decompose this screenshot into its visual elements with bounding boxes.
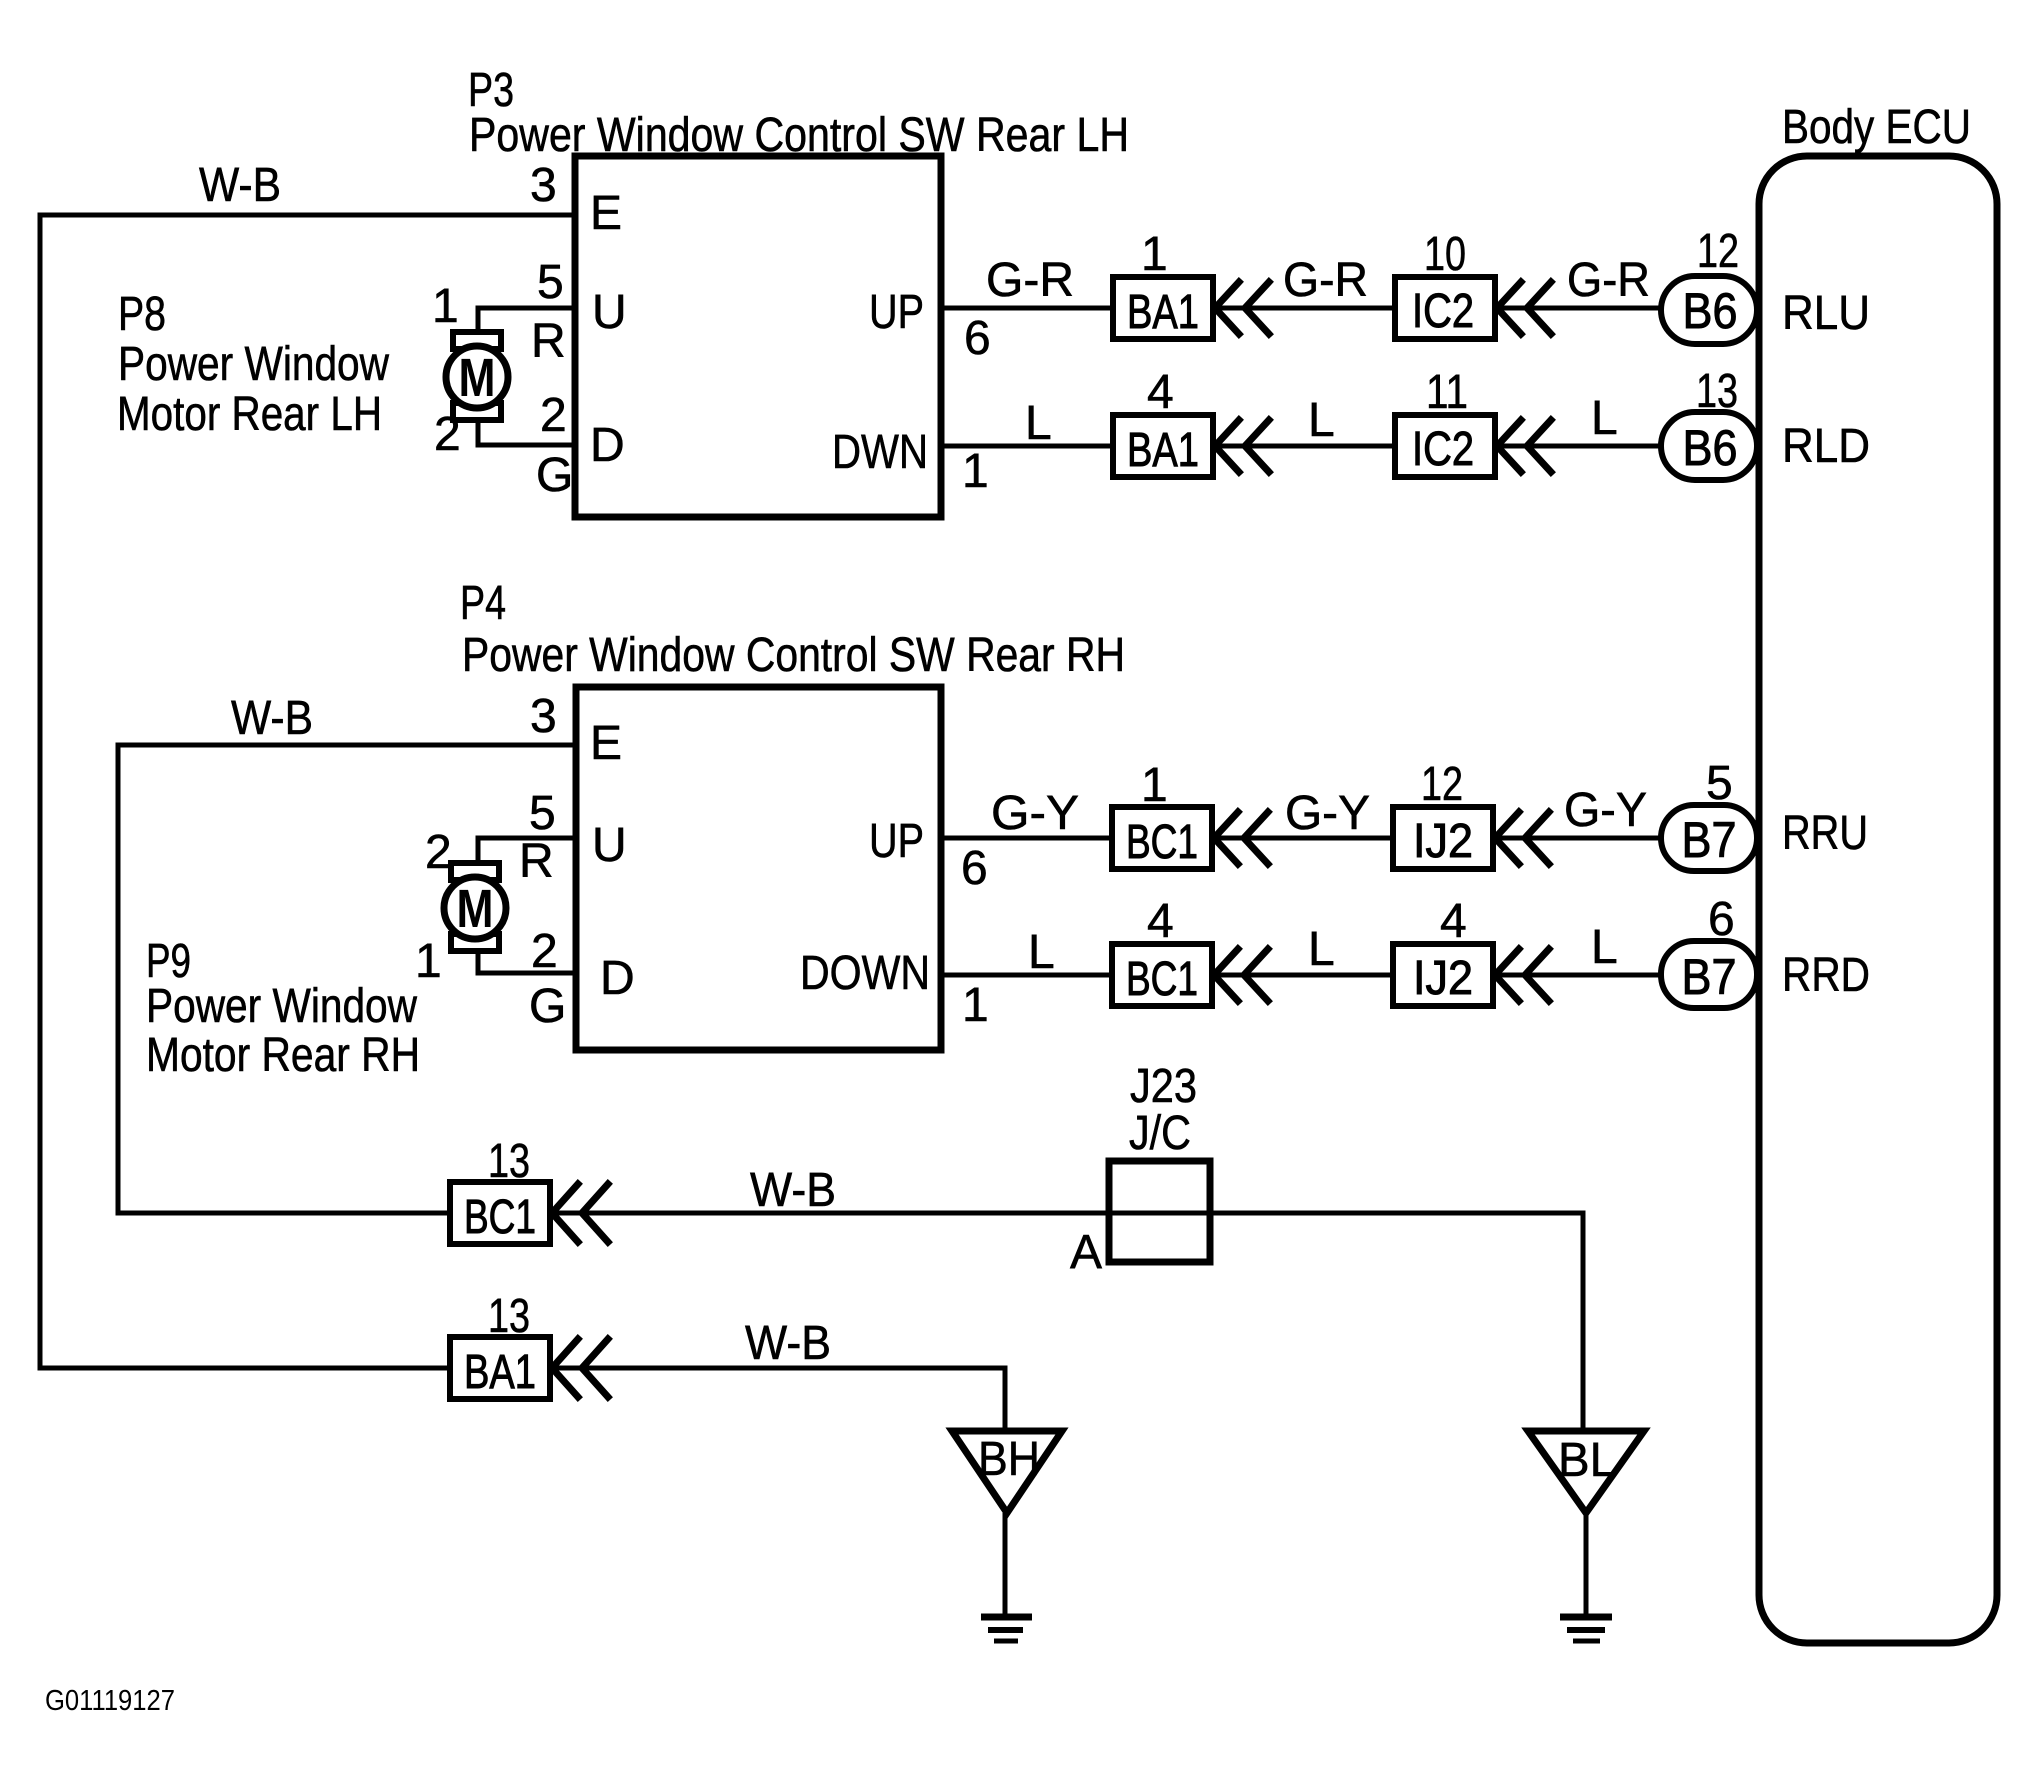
svg-text:G-Y: G-Y (991, 787, 1079, 840)
svg-text:UP: UP (869, 815, 924, 868)
svg-text:RRD: RRD (1782, 949, 1870, 1002)
svg-text:W-B: W-B (231, 692, 313, 745)
svg-text:IC2: IC2 (1412, 423, 1474, 476)
svg-text:4: 4 (1147, 895, 1174, 948)
svg-text:G01119127: G01119127 (45, 1685, 175, 1717)
svg-text:L: L (1591, 921, 1618, 974)
svg-text:M: M (457, 879, 494, 939)
svg-text:Power Window Control SW Rear R: Power Window Control SW Rear RH (462, 629, 1125, 682)
svg-text:DOWN: DOWN (800, 947, 930, 1000)
svg-text:P4: P4 (460, 577, 506, 630)
svg-text:1: 1 (432, 280, 459, 333)
svg-text:D: D (600, 952, 635, 1005)
svg-text:5: 5 (529, 787, 556, 840)
svg-text:BA1: BA1 (1127, 424, 1199, 477)
svg-text:5: 5 (537, 256, 564, 309)
svg-text:IJ2: IJ2 (1413, 815, 1473, 868)
svg-text:5: 5 (1706, 757, 1733, 810)
svg-text:U: U (592, 286, 627, 339)
svg-text:L: L (1308, 923, 1335, 976)
svg-text:R: R (519, 835, 554, 888)
svg-text:Power Window: Power Window (146, 980, 417, 1033)
svg-text:B6: B6 (1683, 420, 1738, 476)
svg-text:G-Y: G-Y (1564, 784, 1647, 837)
svg-text:M: M (459, 348, 496, 408)
svg-text:13: 13 (1696, 365, 1738, 418)
svg-text:BC1: BC1 (1126, 953, 1198, 1006)
svg-text:12: 12 (1697, 225, 1739, 278)
svg-text:BC1: BC1 (464, 1191, 536, 1244)
svg-text:W-B: W-B (750, 1164, 836, 1217)
svg-text:U: U (592, 819, 627, 872)
svg-text:G-Y: G-Y (1285, 787, 1370, 840)
svg-text:L: L (1308, 394, 1335, 447)
svg-text:6: 6 (964, 312, 991, 365)
svg-text:D: D (590, 419, 625, 472)
svg-text:BA1: BA1 (464, 1346, 536, 1399)
svg-text:10: 10 (1424, 228, 1466, 281)
svg-text:G: G (536, 449, 573, 502)
svg-text:P8: P8 (118, 288, 166, 341)
svg-text:4: 4 (1147, 366, 1174, 419)
svg-text:RLU: RLU (1782, 287, 1870, 340)
svg-text:2: 2 (531, 925, 558, 978)
svg-text:6: 6 (1708, 893, 1735, 946)
svg-text:6: 6 (961, 842, 988, 895)
svg-text:2: 2 (425, 826, 452, 879)
svg-text:4: 4 (1440, 895, 1467, 948)
svg-text:J23: J23 (1130, 1060, 1197, 1113)
svg-text:3: 3 (530, 690, 557, 743)
svg-text:2: 2 (434, 408, 461, 461)
svg-text:G: G (529, 980, 566, 1033)
svg-text:1: 1 (415, 935, 442, 988)
svg-text:RLD: RLD (1782, 420, 1870, 473)
svg-text:1: 1 (1141, 759, 1168, 812)
svg-text:1: 1 (962, 445, 989, 498)
svg-text:IJ2: IJ2 (1413, 952, 1473, 1005)
svg-text:Power Window: Power Window (118, 338, 389, 391)
svg-text:B7: B7 (1682, 812, 1737, 868)
svg-text:Motor Rear RH: Motor Rear RH (146, 1029, 420, 1082)
svg-text:UP: UP (869, 286, 924, 339)
svg-text:E: E (590, 717, 622, 770)
svg-text:G-R: G-R (1283, 254, 1368, 307)
svg-text:R: R (531, 315, 566, 368)
svg-text:13: 13 (488, 1135, 530, 1188)
svg-text:Power Window Control SW Rear L: Power Window Control SW Rear LH (469, 109, 1129, 162)
svg-text:A: A (1070, 1226, 1102, 1279)
svg-text:E: E (590, 187, 622, 240)
svg-text:L: L (1025, 397, 1052, 450)
svg-text:12: 12 (1421, 758, 1463, 811)
svg-text:BA1: BA1 (1127, 286, 1199, 339)
svg-text:1: 1 (962, 979, 989, 1032)
svg-text:Motor Rear LH: Motor Rear LH (117, 388, 382, 441)
svg-text:B6: B6 (1683, 283, 1738, 339)
svg-text:W-B: W-B (199, 159, 281, 212)
svg-text:B7: B7 (1682, 949, 1737, 1005)
svg-text:11: 11 (1426, 366, 1468, 419)
svg-text:BL: BL (1558, 1434, 1616, 1487)
svg-text:J/C: J/C (1129, 1107, 1191, 1160)
svg-text:2: 2 (540, 389, 567, 442)
svg-text:RRU: RRU (1782, 807, 1868, 860)
svg-text:G-R: G-R (1567, 254, 1650, 307)
svg-text:1: 1 (1141, 228, 1168, 281)
svg-text:13: 13 (488, 1290, 530, 1343)
svg-text:Body ECU: Body ECU (1782, 101, 1971, 154)
svg-text:L: L (1028, 926, 1055, 979)
svg-text:BC1: BC1 (1126, 816, 1198, 869)
svg-text:DWN: DWN (832, 426, 928, 479)
svg-text:BH: BH (978, 1433, 1040, 1486)
svg-text:IC2: IC2 (1412, 285, 1474, 338)
svg-text:3: 3 (530, 159, 557, 212)
svg-text:L: L (1591, 392, 1618, 445)
svg-text:W-B: W-B (745, 1317, 831, 1370)
svg-text:G-R: G-R (986, 254, 1074, 307)
